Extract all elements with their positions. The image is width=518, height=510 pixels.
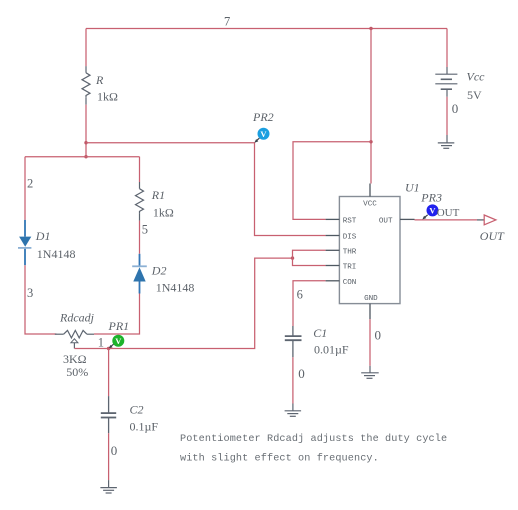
resistor R [82, 66, 90, 105]
svg-text:C1: C1 [313, 326, 327, 340]
pin stub THR [326, 249, 340, 251]
svg-text:3: 3 [27, 286, 33, 300]
pin stub CON [326, 280, 340, 282]
wire R1 to D2 [139, 221, 141, 254]
svg-text:RST: RST [343, 218, 357, 226]
wire THR [293, 250, 326, 258]
wire GND pin to ground [369, 319, 371, 366]
pin stub DIS [326, 235, 340, 237]
probe PR1 [109, 335, 125, 349]
svg-text:D2: D2 [151, 264, 167, 278]
svg-text:3KΩ: 3KΩ [63, 352, 87, 366]
svg-text:Vcc: Vcc [467, 69, 486, 83]
diode D1 [18, 220, 31, 265]
svg-text:TRI: TRI [343, 264, 357, 272]
wire TRI [293, 258, 326, 265]
svg-text:D1: D1 [35, 229, 51, 243]
junction R bottom / diode branch rail [84, 155, 87, 158]
resistor R1 [136, 182, 144, 221]
svg-text:1: 1 [98, 335, 104, 349]
svg-text:U1: U1 [405, 181, 420, 195]
svg-text:R1: R1 [151, 188, 165, 202]
wire CON to C1 [293, 281, 326, 326]
ground below C2 [100, 480, 117, 493]
wire top rail node 7 [86, 28, 447, 30]
svg-text:1kΩ: 1kΩ [153, 205, 174, 219]
pin stub OUT [400, 218, 415, 220]
op-amp U1 555 timer body [339, 197, 400, 304]
wire D1 bottom to pot [25, 265, 56, 334]
wire R bottom [85, 105, 87, 157]
wire C1 to ground [292, 357, 294, 403]
wire wiper to junction [75, 348, 109, 350]
svg-text:VCC: VCC [363, 200, 377, 208]
svg-text:1N4148: 1N4148 [37, 247, 76, 261]
svg-text:CON: CON [343, 279, 357, 287]
wire C2 to ground [108, 433, 110, 480]
svg-text:V: V [260, 129, 267, 139]
svg-text:OUT: OUT [379, 218, 393, 226]
svg-text:C2: C2 [130, 403, 144, 417]
probe PR3 [422, 204, 438, 219]
svg-text:1N4148: 1N4148 [156, 280, 195, 294]
svg-text:PR3: PR3 [420, 191, 442, 205]
junction THR/TRI [291, 256, 294, 259]
output connector OUT arrow [484, 215, 496, 225]
capacitor C2 [101, 396, 116, 433]
wire node1 to THR/TRI junction [109, 258, 293, 348]
junction R bottom / PR2 wire [84, 141, 87, 144]
svg-text:V: V [115, 336, 122, 346]
svg-text:0.01µF: 0.01µF [314, 343, 349, 357]
svg-text:0: 0 [111, 443, 118, 458]
svg-text:2: 2 [27, 177, 33, 191]
ground below battery [438, 135, 455, 148]
svg-text:DIS: DIS [343, 234, 357, 242]
svg-text:0: 0 [375, 328, 382, 343]
wire R top [85, 29, 87, 67]
svg-text:with slight effect on frequenc: with slight effect on frequency. [180, 452, 379, 464]
output connector lead [477, 219, 484, 221]
wire to DIS pin via PR2 corner [86, 143, 326, 236]
svg-text:1kΩ: 1kΩ [97, 90, 118, 104]
capacitor C1 [285, 326, 302, 357]
ground below U1 [361, 366, 379, 379]
wire D1 top [24, 157, 26, 220]
wire battery top [446, 29, 448, 68]
battery Vcc [435, 67, 457, 97]
svg-text:50%: 50% [66, 365, 88, 379]
svg-text:0.1µF: 0.1µF [130, 420, 159, 434]
wire diode branch rail [25, 156, 140, 158]
svg-text:6: 6 [297, 287, 303, 301]
wire D2 bottom to pot [94, 294, 140, 335]
svg-text:5V: 5V [467, 88, 482, 102]
pin stub VCC [369, 184, 371, 197]
svg-text:R: R [95, 73, 104, 87]
wire OUT [415, 219, 478, 221]
svg-text:GND: GND [364, 295, 378, 303]
svg-text:5: 5 [142, 223, 148, 237]
svg-text:Rdcadj: Rdcadj [59, 310, 95, 324]
svg-text:PR2: PR2 [252, 110, 274, 124]
svg-text:OUT: OUT [480, 229, 505, 243]
diode D2 [132, 254, 147, 294]
svg-text:THR: THR [343, 248, 357, 256]
pin stub RST [326, 218, 340, 220]
svg-text:0: 0 [298, 366, 305, 381]
wire RST branch [293, 142, 371, 220]
junction Vcc drop / RST branch [369, 140, 372, 143]
svg-text:OUT: OUT [437, 207, 460, 219]
junction wiper node 1 [107, 347, 110, 350]
potentiometer Rdcadj [55, 330, 94, 348]
svg-text:V: V [429, 206, 436, 216]
wire Vcc drop to U1 VCC pin [370, 29, 372, 184]
ground below C1 [285, 404, 302, 417]
wire R1 top [139, 157, 141, 182]
svg-text:Potentiometer Rdcadj adjusts t: Potentiometer Rdcadj adjusts the duty cy… [180, 433, 447, 445]
junction top rail / battery drop [369, 27, 372, 30]
pin stub GND [369, 304, 371, 320]
pin stub TRI [326, 265, 340, 267]
wire battery bottom [446, 97, 448, 135]
probe PR2 [254, 128, 269, 143]
svg-text:PR1: PR1 [108, 319, 130, 333]
wire junction to C2 [108, 349, 110, 397]
svg-text:7: 7 [224, 15, 230, 29]
svg-text:0: 0 [452, 101, 459, 116]
